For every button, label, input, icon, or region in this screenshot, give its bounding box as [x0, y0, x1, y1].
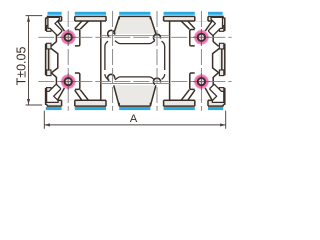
pocket cap line [223, 92, 224, 94]
slot mouth wall [194, 100, 196, 106]
edge bracket bar inner line left [48, 49, 50, 70]
machined surface strip bottom [164, 107, 195, 110]
side mouth notch left [44, 75, 51, 88]
top surface line [164, 15, 195, 17]
machined surface strip bottom [75, 107, 106, 110]
web chord bottom [101, 83, 170, 85]
top surface line [208, 15, 224, 17]
hole crosshair [60, 81, 76, 83]
edge lip hook [219, 70, 223, 76]
slot mouth wall [194, 16, 196, 21]
vertical centerline [112, 11, 114, 111]
hole crosshair [60, 36, 76, 38]
slot flare [75, 90, 82, 100]
web trapezoid top slope [114, 17, 120, 34]
slot mouth wall [207, 100, 209, 106]
edge lip hook [219, 88, 223, 94]
A dim arrow left [44, 123, 50, 126]
cavity blob middle [101, 16, 170, 107]
left edge line [45, 88, 47, 105]
lip underside line [164, 99, 171, 101]
slot flare [188, 21, 195, 29]
slot mouth wall [74, 16, 76, 21]
slot mouth wall [74, 100, 76, 106]
A dim line [44, 124, 225, 126]
right edge line [224, 88, 226, 105]
middle mouth wall [163, 100, 165, 106]
slot flare [205, 21, 213, 32]
side flare [213, 86, 218, 91]
side husk [212, 77, 214, 86]
T dim extension bottom [26, 104, 43, 106]
edge lip hook [47, 26, 51, 32]
hole crosshair [193, 36, 209, 38]
slot lip shelf [58, 20, 62, 22]
hole ring [65, 78, 72, 85]
web trapezoid top [114, 16, 156, 34]
slot mouth notch bottom [62, 100, 75, 107]
lip underside line [164, 20, 171, 22]
edge lip hook [47, 70, 51, 76]
hole pink halo [194, 30, 209, 45]
A dim arrow right [220, 123, 226, 126]
slot lip shelf [170, 20, 195, 22]
hole pink ring [62, 31, 75, 44]
mid zigzag left [51, 48, 58, 73]
middle mouth wall [118, 16, 120, 19]
side husk [212, 33, 214, 42]
edge bracket bar inner line right [221, 49, 223, 70]
top surface line [75, 15, 106, 17]
web chord top [101, 34, 170, 36]
side mouth notch left [44, 31, 51, 44]
right edge line [224, 18, 226, 31]
hole interior [199, 79, 205, 85]
web edge [80, 21, 88, 29]
slot flare [205, 87, 213, 101]
side flare [51, 86, 56, 91]
side flare [213, 42, 218, 47]
T dim arrow down [27, 99, 30, 105]
middle mouth wall [105, 16, 107, 21]
side flare [51, 42, 56, 47]
T dim extension top [26, 15, 43, 17]
web edge [181, 90, 189, 101]
side mouth notch right [219, 75, 226, 88]
corner chamfer [46, 104, 48, 106]
machined surface strip bottom [46, 107, 62, 110]
middle mouth wall [149, 103, 151, 107]
machined surface strip top [208, 12, 223, 15]
machined surface strip top [48, 12, 62, 15]
web trapezoid bottom slope [150, 85, 156, 106]
vertical centerline [67, 11, 69, 111]
side cavity pocket [214, 70, 224, 93]
pocket cap line [223, 25, 224, 27]
hole pink halo [61, 30, 76, 45]
slot lip shelf [170, 99, 195, 101]
slot flare [75, 21, 82, 29]
slot mouth wall [61, 100, 63, 106]
cavity wall left [100, 21, 102, 101]
side husk [55, 33, 57, 42]
hole interior [65, 35, 71, 41]
T dim line [28, 16, 30, 104]
hole interior [199, 35, 205, 41]
boss husk [190, 73, 195, 89]
middle mouth wall [105, 100, 107, 106]
machined surface strip bottom [119, 107, 150, 110]
slot mouth notch bottom [195, 100, 208, 107]
top surface line [119, 15, 150, 17]
C boss left [108, 74, 115, 80]
slot mouth wall [61, 16, 63, 21]
lip underside line [100, 99, 106, 101]
hole pink ring [195, 31, 208, 44]
slot mouth wall [207, 16, 209, 21]
slot lip shelf [75, 99, 101, 101]
pocket cap line [46, 69, 47, 71]
slot flare [188, 90, 195, 100]
bottom surface line [119, 105, 150, 107]
hole crosshair [67, 73, 69, 89]
middle lip bottom [164, 100, 170, 106]
slot mouth notch top [62, 15, 75, 21]
hole pink halo [61, 74, 76, 89]
side flare [213, 28, 218, 33]
corner relief arrow [47, 85, 61, 103]
pocket cap line [223, 69, 224, 71]
slot lip shelf [58, 99, 62, 101]
side husk [55, 77, 57, 86]
corner relief arrow [210, 85, 224, 103]
edge lip hook [47, 88, 51, 94]
vertical centerline [156, 11, 158, 111]
edge lip hook [219, 43, 223, 49]
hole crosshair [200, 73, 202, 89]
left edge line [45, 44, 47, 76]
web edge [80, 90, 88, 101]
right edge line [224, 44, 226, 76]
corner relief arrow [209, 17, 223, 35]
side flare [51, 73, 56, 78]
slot lip shelf [208, 99, 212, 101]
slot flare [58, 21, 66, 32]
hole ring [198, 34, 205, 41]
corner chamfer [223, 17, 225, 19]
slot flare [58, 87, 66, 101]
bottom surface line [75, 105, 106, 107]
C boss left [108, 30, 115, 36]
edge lip hook [219, 26, 223, 32]
slot mouth notch top [195, 15, 208, 21]
bottom surface line [164, 105, 195, 107]
hole pink ring [195, 75, 208, 88]
cavity blob left column [51, 22, 101, 100]
cavity blob right column [170, 22, 220, 100]
boss husk [190, 30, 195, 46]
web edge [181, 21, 189, 29]
hole ring [65, 34, 72, 41]
bottom surface line [47, 105, 62, 107]
profile body silhouette [45, 16, 226, 107]
hole crosshair [200, 29, 202, 45]
web trapezoid top slope [150, 17, 156, 34]
T dim arrow up [27, 16, 30, 22]
corner chamfer [46, 17, 48, 19]
slot lip shelf [208, 20, 212, 22]
pocket cap line [46, 25, 47, 27]
horizontal centerline [38, 81, 231, 83]
side flare [51, 28, 56, 33]
middle lip top [164, 16, 170, 21]
hole interior [65, 79, 71, 85]
pocket cap line [223, 48, 224, 50]
middle mouth wall [149, 16, 151, 19]
hole ring [198, 78, 205, 85]
corner relief arrow [48, 17, 62, 35]
svg-text:T±0.05: T±0.05 [14, 47, 28, 86]
side flare [213, 73, 218, 78]
side cavity pocket [214, 26, 224, 49]
machined surface strip top [164, 12, 195, 15]
edge lip hook [47, 43, 51, 49]
hole crosshair [67, 29, 69, 45]
horizontal centerline [38, 36, 231, 38]
cavity wall right [169, 21, 171, 101]
machined surface strip top [75, 12, 106, 15]
hole crosshair [193, 81, 209, 83]
A dim extension right [225, 111, 227, 129]
side cavity pocket [47, 26, 57, 49]
top surface line [47, 15, 62, 17]
boss husk [75, 73, 80, 89]
machined surface strip bottom [208, 107, 223, 110]
left edge line [45, 18, 47, 31]
hole pink ring [62, 75, 75, 88]
mid zigzag right [213, 48, 220, 73]
C boss right [154, 34, 161, 40]
corner chamfer [223, 104, 225, 106]
slot lip shelf [75, 20, 101, 22]
middle mouth wall [118, 103, 120, 107]
boss husk [75, 30, 80, 46]
side mouth notch right [219, 31, 226, 44]
web trapezoid bottom slope [114, 85, 120, 106]
pocket cap line [46, 92, 47, 94]
vertical centerline [200, 11, 202, 111]
middle mouth wall [163, 16, 165, 21]
svg-text:A: A [130, 113, 138, 125]
pocket cap line [46, 48, 47, 50]
C boss right [154, 78, 161, 84]
side cavity pocket [47, 70, 57, 93]
hole pink halo [194, 74, 209, 89]
center chamber contour [105, 41, 165, 80]
A dim extension left [43, 111, 45, 129]
lip underside line [100, 20, 106, 22]
machined surface strip top [119, 12, 150, 15]
middle lip bottom [101, 100, 106, 106]
bottom surface line [208, 105, 224, 107]
web trapezoid bottom [114, 85, 156, 106]
middle lip top [101, 16, 106, 21]
